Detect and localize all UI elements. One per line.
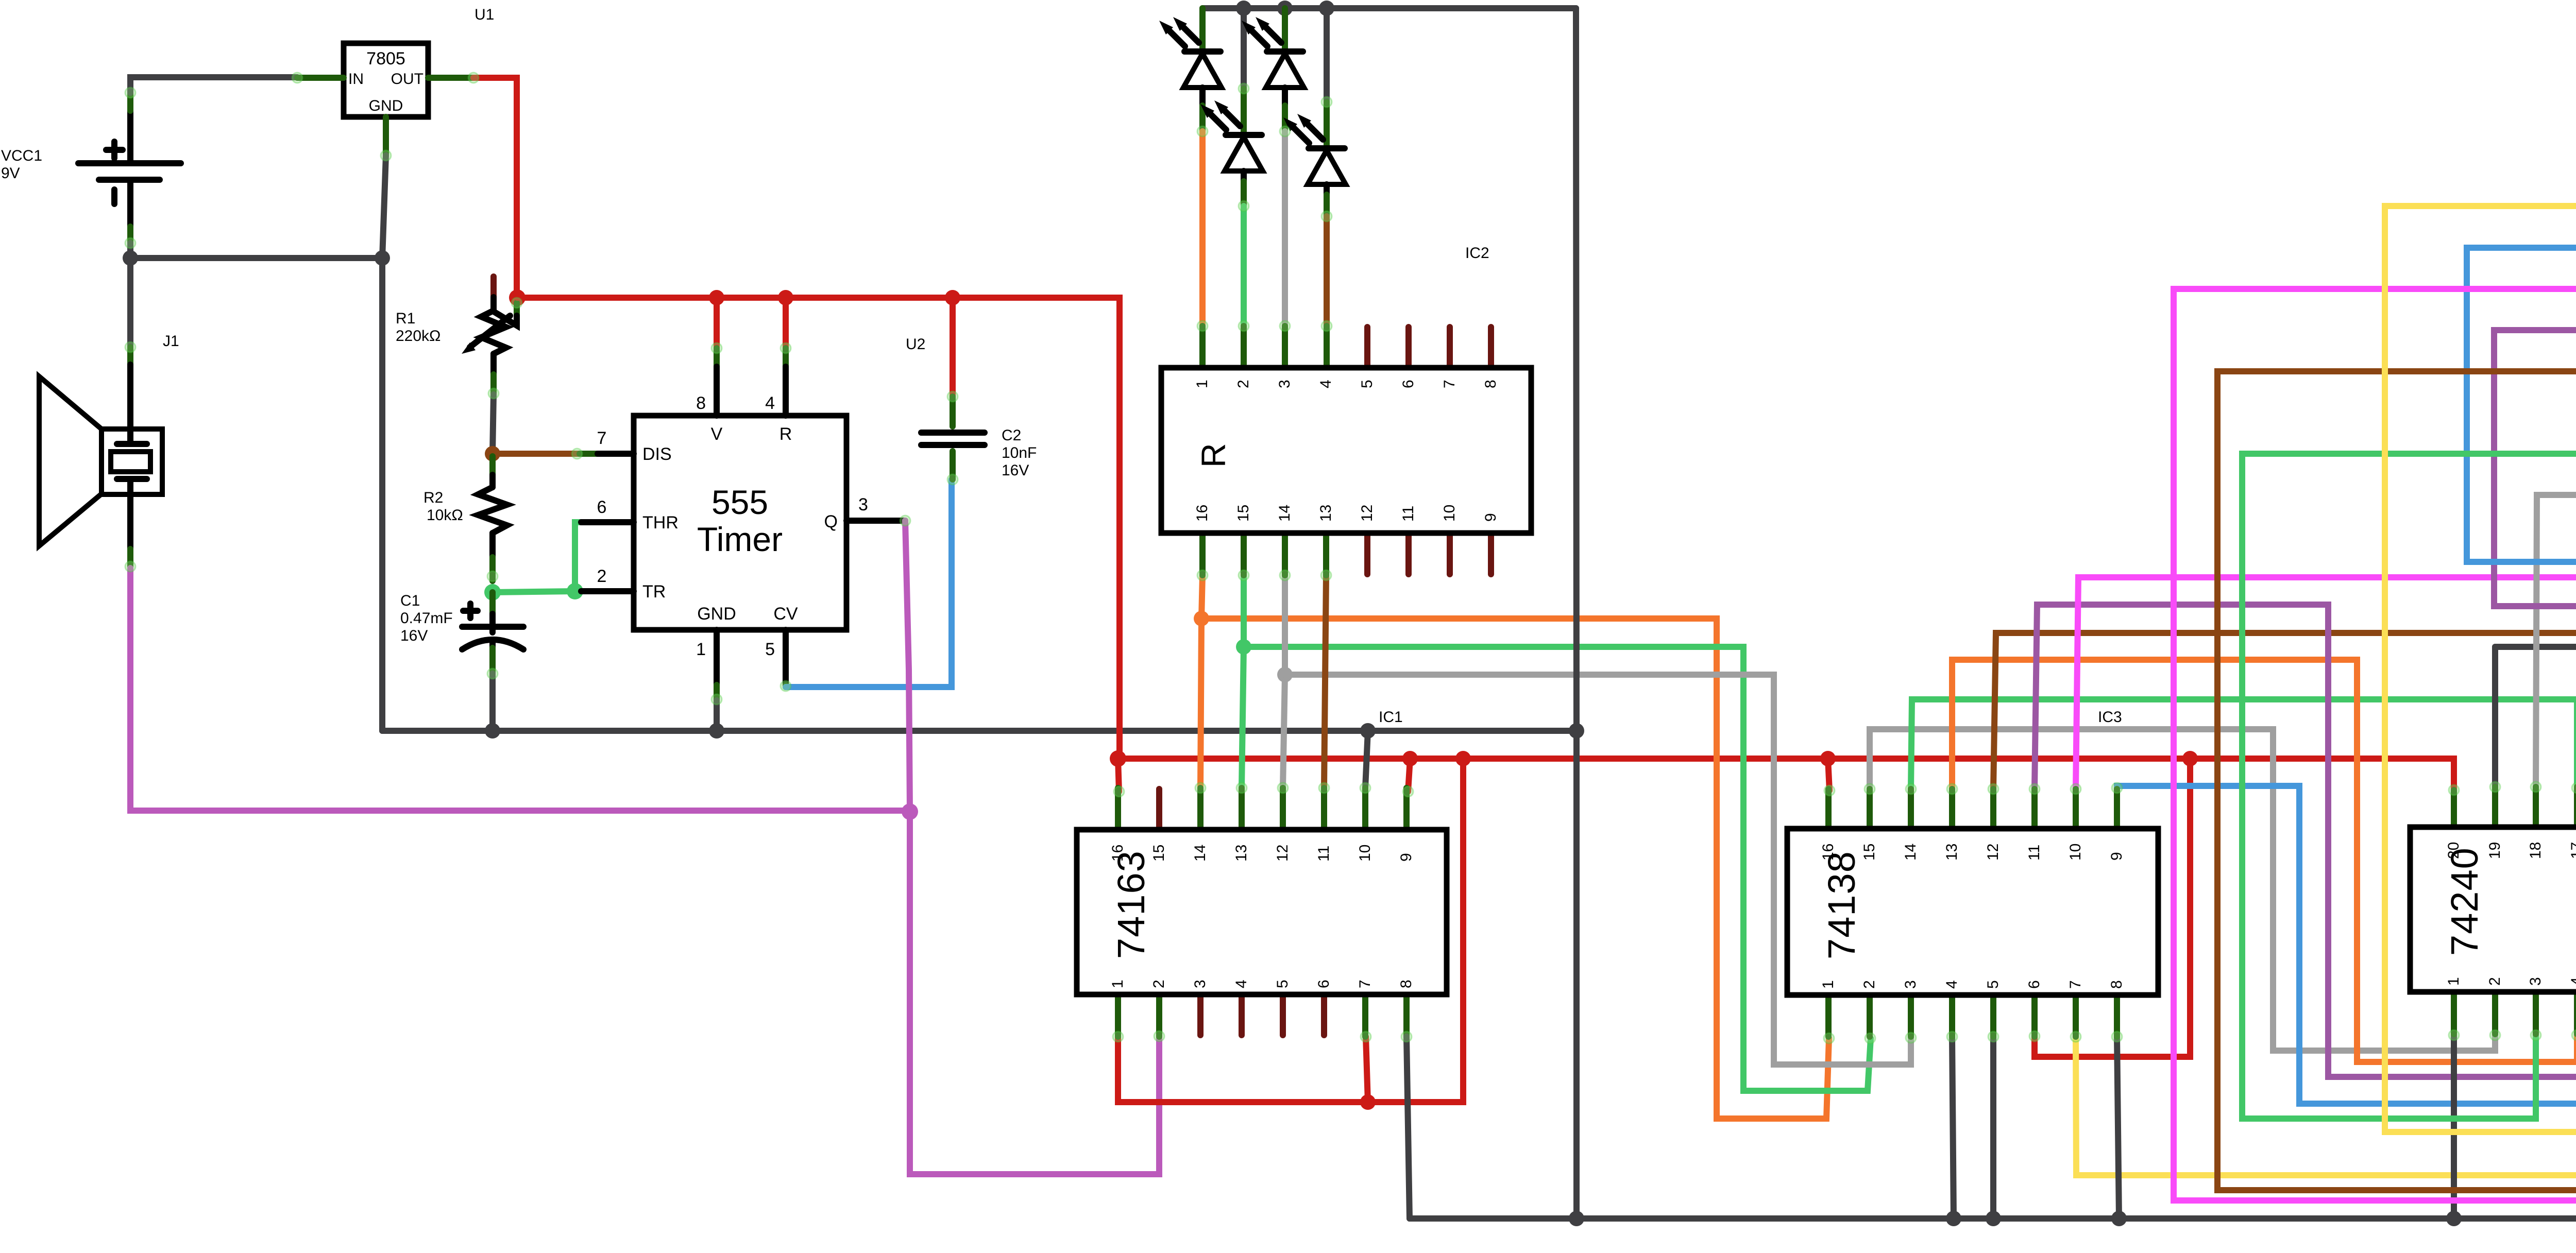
wire grey IC4 pin18 to IC5 pin16	[2536, 495, 2576, 788]
speaker J1	[39, 365, 162, 567]
svg-text:4: 4	[765, 393, 775, 413]
svg-text:9V: 9V	[1, 165, 20, 182]
svg-text:V: V	[711, 424, 723, 444]
wire grey to IC3 pin3	[1285, 675, 1911, 1065]
op-amp U2 555 Timer	[580, 348, 905, 700]
svg-text:7: 7	[1357, 980, 1374, 988]
svg-text:11: 11	[1315, 846, 1332, 862]
node red junction 555 R	[778, 290, 793, 305]
wire red stub IC3 pin16	[1828, 759, 1829, 791]
svg-text:IC2: IC2	[1465, 245, 1489, 262]
wire IC3 pin4 to bottom bus	[1952, 1037, 1954, 1218]
svg-text:8: 8	[1482, 380, 1499, 388]
battery VCC1 9V	[78, 94, 181, 243]
wire pink IC3 pin10 to IC4 pin13	[2076, 577, 2576, 789]
node bus junction IC4 pin1	[2446, 1211, 2462, 1226]
svg-text:6: 6	[2026, 980, 2043, 989]
wire IC1 pin10 to GND bus	[1365, 731, 1368, 788]
svg-text:18: 18	[2527, 842, 2544, 859]
wire brown IC2 pin13 to IC1 pin11	[1324, 575, 1326, 788]
svg-text:C1: C1	[400, 592, 420, 609]
svg-text:555: 555	[711, 483, 768, 521]
svg-text:DIS: DIS	[642, 444, 672, 464]
resistor network IC2	[1161, 326, 1531, 575]
svg-text:5: 5	[765, 640, 775, 659]
svg-text:10: 10	[2067, 844, 2084, 861]
node red junction IC1 pin9	[1402, 751, 1418, 766]
wire orange to IC3 pin1	[1201, 619, 1829, 1119]
wire GND bottom bus	[1410, 647, 2576, 1218]
node red junction at R1	[509, 289, 526, 306]
svg-text:5: 5	[1359, 380, 1376, 388]
svg-text:2: 2	[597, 567, 607, 586]
svg-text:TR: TR	[642, 582, 666, 602]
wire red VCC bus upper	[517, 298, 1120, 759]
svg-text:7805: 7805	[366, 49, 405, 68]
svg-text:R: R	[1194, 443, 1232, 468]
svg-text:74163: 74163	[1110, 850, 1153, 959]
svg-text:3: 3	[1192, 980, 1209, 988]
decoder IC3 74138	[1787, 789, 2158, 1037]
wire blue CV to C2	[786, 479, 952, 687]
svg-text:16: 16	[1820, 844, 1837, 861]
wire orchid to IC1 pin2	[910, 812, 1159, 1174]
svg-text:4: 4	[1317, 380, 1334, 388]
node red junction IC3 pin6 leg	[2182, 751, 2198, 766]
node red junction IC3 pin16	[1820, 751, 1836, 766]
node green junction	[1236, 639, 1251, 655]
svg-text:16V: 16V	[1002, 462, 1029, 479]
wire 555 GND pin to bus	[714, 700, 720, 731]
wire grey LED3 to IC2 pin3	[1282, 131, 1288, 326]
svg-text:4: 4	[1943, 980, 1960, 989]
svg-text:3: 3	[1276, 380, 1293, 388]
wire blue IC4 pin12 to IC5 pin10	[2467, 248, 2576, 788]
svg-text:U2: U2	[906, 336, 925, 353]
wire IC4 pin19 up to GND horizontal	[2492, 647, 2498, 787]
wire speaker to Q net orchid	[130, 568, 910, 811]
svg-text:7: 7	[1441, 380, 1458, 388]
wire red IC1 pin1 pin7 loop	[1118, 759, 1463, 1102]
wire green C1 to TR	[493, 591, 575, 592]
svg-text:17: 17	[2568, 842, 2576, 859]
svg-text:1: 1	[1109, 980, 1126, 988]
counter IC1 74163	[1077, 788, 1447, 1037]
svg-text:11: 11	[1400, 506, 1417, 522]
LED D1	[1159, 8, 1222, 131]
svg-text:3: 3	[2527, 977, 2544, 986]
node GND junction bottom	[1569, 1211, 1584, 1226]
svg-text:R1: R1	[396, 310, 415, 327]
svg-text:74138: 74138	[1820, 851, 1863, 959]
wire orchid Q output down	[905, 521, 910, 811]
wire green LED2 to IC2 pin2	[1241, 206, 1247, 326]
wire brown to 555 DIS	[493, 451, 580, 457]
node red junction 555 V	[709, 290, 724, 305]
svg-text:2: 2	[1235, 380, 1252, 388]
svg-text:10: 10	[1441, 505, 1458, 522]
node green junction TR corner	[567, 583, 583, 599]
svg-text:9: 9	[1398, 853, 1415, 862]
wire violet IC4 pin14 to IC5 pin12	[2494, 330, 2576, 788]
svg-text:12: 12	[1985, 844, 2002, 861]
svg-text:IN: IN	[348, 71, 364, 88]
regulator U1 7805	[297, 43, 473, 156]
svg-text:74240: 74240	[2443, 847, 2486, 956]
wire red VCC bus lower	[1120, 759, 2454, 790]
svg-text:7: 7	[597, 428, 607, 448]
wire endpoint markers	[125, 73, 2576, 1043]
svg-text:1: 1	[1194, 380, 1211, 388]
node orchid junction	[902, 803, 918, 820]
svg-text:13: 13	[1317, 505, 1334, 522]
wire IC3 pin8 to bottom bus	[2117, 1037, 2119, 1218]
node bus junction LED3	[1277, 1, 1293, 16]
wire ground vertical to GND bus	[379, 258, 385, 731]
svg-text:1: 1	[2445, 977, 2462, 986]
wire IC3 pin5 to bottom bus	[1990, 1037, 1996, 1218]
wire orange IC3 pin13 to IC4 pin4	[1952, 660, 2576, 1062]
LED D2	[1200, 8, 1263, 206]
LED D3	[1242, 8, 1304, 131]
wire U1 OUT red to R1	[473, 78, 517, 298]
svg-text:20: 20	[2445, 842, 2462, 859]
svg-text:R2: R2	[423, 489, 443, 506]
svg-text:8: 8	[1398, 980, 1415, 988]
svg-text:OUT: OUT	[391, 71, 423, 88]
svg-text:16V: 16V	[400, 627, 428, 644]
svg-text:13: 13	[1233, 845, 1250, 862]
svg-text:7: 7	[2067, 980, 2084, 989]
svg-text:2: 2	[2486, 977, 2503, 986]
svg-text:1: 1	[1820, 980, 1837, 989]
node red junction C2	[945, 290, 960, 305]
svg-text:6: 6	[1400, 380, 1417, 388]
potentiometer R1 220k	[462, 277, 517, 393]
wire orange IC2 pin16 to IC1 pin14	[1200, 575, 1202, 788]
svg-text:14: 14	[1192, 845, 1209, 862]
svg-text:8: 8	[2108, 980, 2125, 989]
wire green IC4 pin3 to IC5 pin15	[2242, 454, 2576, 1119]
wire LED top bus	[1202, 5, 1576, 11]
node GND junction IC1 pin10	[1360, 723, 1376, 739]
svg-text:13: 13	[1943, 844, 1960, 861]
svg-text:15: 15	[1235, 505, 1252, 522]
svg-text:14: 14	[1276, 505, 1293, 522]
svg-text:9: 9	[2108, 852, 2125, 861]
svg-text:15: 15	[1150, 845, 1167, 862]
svg-text:10: 10	[1357, 845, 1374, 862]
wire R1 to R2 junction	[493, 394, 494, 454]
wire battery minus to ground junction	[130, 243, 382, 258]
wire red IC3 pin6 enable	[2035, 759, 2190, 1057]
svg-text:Timer: Timer	[697, 520, 783, 558]
svg-text:Q: Q	[824, 512, 838, 531]
node red junction IC1 pin7	[1360, 1094, 1376, 1110]
svg-text:1: 1	[696, 640, 706, 659]
node bus junction IC3 pin5	[1986, 1211, 2001, 1226]
node GND junction 555	[709, 723, 724, 739]
LED D4	[1283, 8, 1346, 216]
wire U1 GND to ground junction	[382, 156, 386, 258]
svg-text:10nF: 10nF	[1002, 444, 1037, 461]
wire GND vertical LED top bus to bottom bus	[1576, 8, 1577, 1218]
node red junction right leg	[1455, 751, 1471, 766]
buffer IC4 74240	[2410, 787, 2576, 1034]
node brown junction DIS	[485, 446, 500, 461]
svg-text:9: 9	[1482, 513, 1499, 522]
svg-text:19: 19	[2486, 842, 2503, 859]
svg-text:IC3: IC3	[2098, 709, 2122, 726]
wire brown LED4 to IC2 pin4	[1324, 216, 1330, 326]
svg-text:J1: J1	[163, 333, 179, 350]
node grey junction	[1277, 667, 1293, 682]
wire violet IC3 pin11 to IC4 pin6	[2035, 605, 2576, 1077]
node GND junction mid	[1569, 723, 1584, 739]
svg-text:12: 12	[1274, 845, 1291, 862]
wire battery plus to U1 IN	[130, 77, 297, 93]
svg-text:5: 5	[1985, 980, 2002, 989]
wire yellow IC4 pin9 to IC5 pin9	[2385, 206, 2576, 1132]
svg-text:5: 5	[1274, 980, 1291, 988]
svg-text:3: 3	[1902, 980, 1919, 989]
svg-text:220kΩ: 220kΩ	[396, 328, 440, 345]
svg-text:6: 6	[1315, 980, 1332, 988]
svg-text:6: 6	[597, 497, 607, 517]
wire green IC3 pin14 to IC4 pin17	[1911, 699, 2576, 789]
svg-text:3: 3	[858, 495, 868, 514]
node ground junction B	[375, 250, 390, 266]
svg-text:VCC1: VCC1	[1, 147, 42, 164]
wire C1 to GND bus	[489, 674, 496, 731]
node ground junction A	[123, 250, 138, 266]
wire green corner up to THR	[575, 522, 581, 591]
svg-text:U1: U1	[474, 6, 494, 23]
wire grey IC3 pin15 to IC4 pin2	[1870, 729, 2495, 1051]
svg-text:R: R	[779, 424, 792, 444]
capacitor C1 0.47mF	[462, 592, 523, 674]
svg-text:4: 4	[1233, 980, 1250, 988]
svg-text:15: 15	[1861, 844, 1878, 861]
wire yellow IC3 pin7 to IC4 pin11	[2076, 786, 2576, 1175]
svg-text:14: 14	[1902, 844, 1919, 861]
svg-text:8: 8	[696, 393, 706, 413]
node bus junction LED4	[1319, 1, 1334, 16]
wire pink IC4 pin7 to IC5 pin11	[2174, 289, 2576, 1200]
wire ground junction to speaker	[127, 258, 133, 365]
wire orange LED1 to IC2 pin1	[1199, 131, 1206, 326]
resistor R2 10k	[478, 456, 507, 581]
svg-text:GND: GND	[697, 604, 736, 624]
node green junction C1 top	[484, 584, 501, 600]
wire blue IC3 pin9 to IC4 pin8	[2117, 786, 2576, 1104]
wire red stub IC1 pin7	[1366, 1037, 1368, 1102]
svg-text:2: 2	[1150, 980, 1167, 988]
wire red to 555 pin4	[783, 298, 789, 348]
svg-text:C2: C2	[1002, 427, 1021, 444]
svg-text:16: 16	[1109, 845, 1126, 862]
svg-text:11: 11	[2026, 845, 2043, 861]
svg-text:4: 4	[2568, 977, 2576, 986]
svg-text:10kΩ: 10kΩ	[427, 507, 463, 524]
wire brown IC3 pin12 to IC4 pin15	[1993, 633, 2576, 789]
svg-text:0.47mF: 0.47mF	[400, 610, 453, 627]
svg-text:12: 12	[1359, 505, 1376, 522]
svg-text:CV: CV	[773, 604, 798, 624]
wire GND bus horizontal	[382, 728, 1577, 734]
wire red stub to IC1 pin9	[1408, 759, 1410, 792]
capacitor C2 10nF	[921, 298, 985, 479]
wire brown IC4 pin5 to IC5 pin13	[2217, 371, 2576, 1190]
svg-text:16: 16	[1194, 505, 1211, 522]
wire red to 555 pin8	[714, 298, 720, 348]
node orange junction	[1194, 611, 1209, 626]
svg-text:GND: GND	[369, 97, 403, 114]
node GND junction C1	[485, 723, 500, 739]
node red junction IC1 pin16	[1110, 750, 1126, 767]
svg-text:IC1: IC1	[1379, 709, 1403, 726]
wire grey IC2 pin14 to IC1 pin12	[1283, 575, 1285, 788]
node bus junction LED2	[1236, 1, 1251, 16]
svg-text:2: 2	[1861, 980, 1878, 989]
wire IC4 pin1 to bottom bus	[2451, 1035, 2457, 1218]
wire red stub to IC1 pin16	[1118, 759, 1119, 792]
wire green to IC3 pin2	[1244, 647, 1871, 1091]
wire green IC2 pin15 to IC1 pin13	[1242, 575, 1244, 788]
node bus junction IC3 pin8	[2111, 1211, 2127, 1226]
node bus junction IC3 pin4	[1946, 1211, 1961, 1226]
svg-text:THR: THR	[642, 513, 679, 533]
wire IC1 pin8 to bottom bus	[1406, 1037, 1410, 1218]
